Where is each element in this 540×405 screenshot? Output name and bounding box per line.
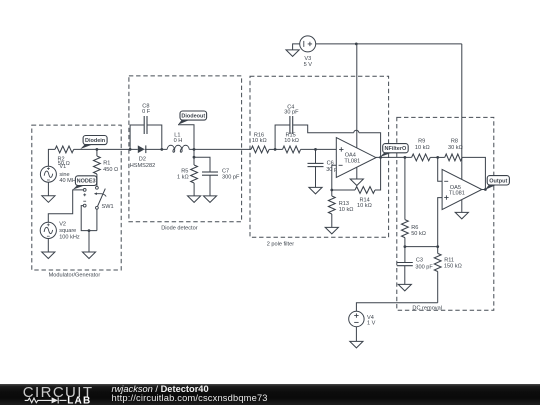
op-amp OA4 negative supply pin to ground (356, 168, 358, 180)
svg-text:TL081: TL081 (449, 191, 465, 197)
svg-text:NFilterO: NFilterO (385, 146, 407, 152)
svg-text:1 V: 1 V (367, 321, 376, 327)
svg-text:R6: R6 (411, 225, 418, 231)
ground at V3 (286, 50, 299, 57)
source V4 1V DC (349, 311, 364, 326)
wire down to switch ground (88, 231, 90, 252)
resistor R5 1kOhm (193, 157, 195, 165)
source V2 square 100 kHz (40, 222, 56, 238)
svg-text:10 kΩ: 10 kΩ (357, 203, 372, 209)
flag Diodeout (178, 125, 194, 157)
junction OA5 output node (484, 188, 487, 191)
resistor R6 50kOhm (404, 157, 406, 219)
wire R9 to R8 (430, 156, 444, 158)
svg-text:300 pF: 300 pF (222, 175, 240, 181)
OA5 negative supply pin to ground (461, 200, 463, 213)
OA5 inverting input stub (438, 157, 442, 181)
capacitor C6 30pF (315, 149, 317, 163)
junction C8 right (160, 148, 163, 151)
svg-text:300 pF: 300 pF (415, 264, 433, 270)
junction OA4 output node (379, 156, 382, 159)
wire R16 to R15 (269, 148, 282, 150)
svg-text:10 kΩ: 10 kΩ (284, 138, 299, 144)
ground below OA5 (455, 212, 468, 219)
dashed box: Modulator/Generator group (32, 125, 121, 270)
wire R2 to D2 through node Diodein (74, 148, 138, 150)
svg-text:V3: V3 (304, 56, 311, 62)
source V3 5V DC (300, 36, 316, 52)
junction switch ground node (88, 229, 91, 232)
wire SW1 minus control to ground rail (81, 206, 97, 231)
svg-text:R8: R8 (451, 138, 458, 144)
wire SW1 common to ground rail (96, 209, 98, 230)
dashed box: DC removal group (397, 117, 494, 310)
wire hop over supply line (354, 130, 359, 133)
resistor R9 10kOhm (412, 154, 431, 161)
wire V1 bottom to ground (47, 182, 49, 196)
svg-text:50 Ω: 50 Ω (58, 161, 70, 167)
resistor R11 150kOhm (437, 247, 439, 254)
flag NODE3 (73, 186, 85, 190)
dashed box: 2 pole filter group (250, 76, 389, 237)
footer bar (0, 384, 540, 405)
junction NFilterO node in DC removal (404, 156, 407, 159)
wire V1 top to R2 (48, 149, 55, 166)
node NODE3 wire: control+ to V2 (48, 190, 83, 222)
resistor R16 10kOhm (251, 146, 269, 153)
svg-text:SW1: SW1 (102, 204, 114, 210)
junction C6 tap (314, 148, 317, 151)
wire OA5 output (482, 189, 486, 191)
svg-text:2 pole filter: 2 pole filter (267, 242, 294, 248)
op-amp OA4 positive supply pin (356, 44, 358, 148)
svg-text:R1: R1 (103, 161, 110, 167)
junction supply to OA4 (355, 43, 358, 46)
svg-text:R9: R9 (418, 138, 425, 144)
ground below C3 (398, 284, 411, 291)
junction C4 tap (274, 148, 277, 151)
wire OA4 output to DC removal block (376, 156, 412, 158)
svg-text:Diode detector: Diode detector (161, 225, 198, 231)
inductor L1 0H (167, 145, 189, 152)
svg-text:Diodeout: Diodeout (181, 114, 205, 120)
source V1 sine 40 MHz (40, 166, 56, 182)
wire D2 cathode to L1 (145, 148, 167, 150)
switch SW1 voltage-controlled (96, 186, 99, 189)
wire R8 to feedback corner (462, 157, 485, 189)
dashed box: Diode detector group (129, 76, 242, 222)
wire V2 bottom to ground (47, 239, 49, 253)
node junction R2/R1 (96, 148, 99, 151)
resistor R14 10kOhm feedback (332, 189, 355, 191)
svg-text:square: square (59, 228, 76, 234)
resistor R1 450 Ohm (96, 149, 98, 156)
capacitor C8 bypass branch (130, 125, 144, 149)
ground below V2 (42, 252, 55, 259)
svg-text:5 V: 5 V (304, 62, 313, 68)
ground below V1 (42, 196, 55, 203)
wire L1 to filter block (189, 148, 251, 150)
svg-text:V2: V2 (59, 222, 66, 228)
flag Diodein (80, 145, 92, 149)
flag Output (485, 185, 496, 190)
junction diodeout node (193, 148, 196, 151)
svg-text:450 Ω: 450 Ω (103, 167, 118, 173)
junction C3 node (404, 245, 407, 248)
svg-text:10 kΩ: 10 kΩ (415, 145, 430, 151)
svg-text:100 kHz: 100 kHz (59, 234, 80, 240)
capacitor C3 300pF (404, 247, 406, 263)
wire R6 bottom node (405, 246, 438, 248)
op-amp OA4 minus input stub (332, 165, 337, 190)
svg-text:DC removal: DC removal (412, 305, 442, 311)
resistor R15 10kOhm (283, 146, 301, 153)
svg-text:10 kΩ: 10 kΩ (252, 138, 267, 144)
wire R11 to V4 (356, 303, 437, 312)
svg-text:1 kΩ: 1 kΩ (177, 175, 189, 181)
svg-text:NODE3: NODE3 (77, 179, 96, 185)
svg-text:TL081: TL081 (344, 158, 360, 164)
svg-text:0 H: 0 H (174, 138, 183, 144)
svg-text:150 kΩ: 150 kΩ (444, 263, 462, 269)
ground below R5 (188, 196, 201, 203)
wire R15 to op-amp + (301, 148, 337, 150)
svg-text:OA4: OA4 (345, 152, 356, 158)
supply rail 5V (316, 43, 462, 45)
op-amp OA4 TL081 (336, 138, 376, 178)
junction R5/C7 node (193, 156, 196, 159)
svg-text:C7: C7 (222, 168, 229, 174)
svg-text:30 kΩ: 30 kΩ (448, 145, 463, 151)
node N junction (R13/R14/inverting) (330, 189, 333, 192)
svg-text:Output: Output (489, 178, 507, 184)
junction C8 left (129, 148, 132, 151)
junction R9/R8 inverting node (436, 156, 439, 159)
resistor R2 (55, 146, 74, 153)
ground below V4 (350, 341, 363, 348)
diode D2 HSMS282 (138, 145, 145, 153)
svg-text:30 pF: 30 pF (284, 110, 299, 116)
wire V3 minus to ground (293, 44, 300, 50)
capacitor C4 30pF feedback branch (275, 125, 289, 149)
flag NFilterO (380, 153, 392, 157)
svg-text:0 F: 0 F (142, 109, 151, 115)
svg-text:C3: C3 (416, 257, 423, 263)
ground below OA4 (350, 179, 363, 186)
svg-text:Modulator/Generator: Modulator/Generator (49, 272, 101, 278)
svg-text:LAB: LAB (67, 396, 91, 405)
ground below C6 (309, 187, 322, 194)
capacitor C7 300pF (194, 157, 210, 172)
svg-text:D2: D2 (139, 157, 146, 163)
svg-text:HSMS282: HSMS282 (130, 163, 156, 169)
svg-text:50 kΩ: 50 kΩ (411, 231, 426, 237)
op-amp OA5 TL081 (442, 169, 482, 209)
ground below SW1 (82, 252, 95, 259)
OA5 positive supply pin (461, 44, 463, 179)
wire V4 to ground (355, 327, 357, 342)
CircuitLab logo (0, 384, 110, 405)
svg-text:Diodein: Diodein (85, 138, 106, 144)
OA5 non-inverting input stub (438, 198, 442, 247)
svg-text:10 kΩ: 10 kΩ (339, 207, 354, 213)
resistor R13 10kOhm (331, 190, 333, 196)
ground below R13 (325, 227, 338, 234)
ground below C7 (203, 196, 216, 203)
resistor R8 30kOhm (445, 154, 463, 161)
junction R11 node (436, 245, 439, 248)
